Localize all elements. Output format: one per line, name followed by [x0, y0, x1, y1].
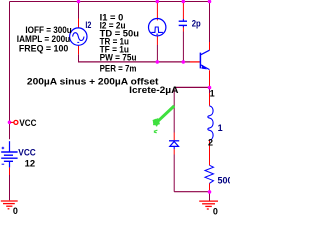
junction dot mid pulse: [156, 60, 160, 64]
transistor collector diagonal: [201, 50, 210, 55]
VCC port circle: [14, 120, 18, 124]
svg-text:VCC: VCC: [19, 118, 36, 128]
svg-text:1: 1: [218, 123, 223, 133]
wire right vertical to collector: [209, 2, 211, 43]
battery plate short: [4, 154, 13, 156]
wire node1 horizontal: [174, 86, 209, 88]
battery plate short bottom: [4, 160, 13, 162]
pin diode bottom: [173, 149, 175, 155]
battery V1 top stub: [9, 141, 11, 152]
transistor emitter arrowhead: [201, 65, 207, 70]
VCC port stub: [11, 121, 14, 123]
wire left vertical VCC rail: [9, 2, 11, 140]
junction dot VCC port: [8, 121, 12, 125]
pin inductor bottom / resistor top: [209, 140, 211, 165]
junction dot top right corner: [208, 0, 212, 3]
battery plate long top: [1, 151, 17, 153]
pin inductor top: [209, 93, 211, 106]
diode D cathode bar: [169, 140, 179, 142]
wire mid horizontal base net: [78, 61, 190, 63]
wire capacitor bottom: [182, 32, 184, 63]
svg-text:12: 12: [25, 159, 35, 169]
battery bottom stub: [9, 161, 11, 167]
pin resistor bottom: [209, 183, 211, 191]
minus dash inside pulse source: [156, 33, 158, 35]
svg-text:2: 2: [208, 137, 213, 147]
battery plus mark: [2, 147, 5, 150]
inductor L coil: [208, 106, 213, 140]
pin sine top: [78, 19, 80, 28]
svg-text:PER = 7m: PER = 7m: [100, 64, 137, 74]
svg-text:Icrete-2µA: Icrete-2µA: [129, 85, 179, 95]
svg-text:0: 0: [13, 206, 18, 215]
resistor R zigzag: [205, 165, 214, 183]
wire left branch vertical to diode: [173, 87, 175, 132]
pulse current source circle: [149, 19, 166, 36]
pin transistor base: [190, 61, 200, 63]
junction dot bottom right: [208, 190, 212, 194]
transistor Q1 bar: [199, 53, 201, 69]
pin transistor emitter: [209, 70, 211, 86]
svg-text:0: 0: [213, 207, 218, 215]
wire bottom horizontal: [174, 191, 209, 193]
capacitor C plates: [179, 20, 187, 22]
diode triangle: [170, 142, 179, 147]
svg-text:VCC: VCC: [18, 148, 36, 158]
pin capacitor top: [182, 3, 184, 20]
ground 0 left bars: [1, 201, 18, 209]
battery plate long: [1, 157, 17, 159]
minus dash inside I2: [77, 41, 79, 43]
wire battery lower to ground1: [9, 175, 11, 200]
sine wave inside I2: [73, 33, 84, 41]
battery minus mark: [2, 163, 5, 165]
pin diode top: [173, 133, 175, 141]
junction dot top capacitor: [182, 0, 186, 3]
wire top rail: [10, 1, 210, 3]
svg-text:500: 500: [218, 175, 231, 185]
pulse waveform inside: [151, 27, 163, 32]
current source I2 sine circle: [70, 28, 87, 45]
wire sine source top stub: [78, 2, 80, 19]
wire below node1 dot: [209, 89, 211, 93]
pin battery bottom: [9, 167, 11, 175]
wire ground2 stub: [209, 193, 211, 201]
diode bottom stub: [173, 146, 175, 149]
svg-text:2p: 2p: [192, 19, 201, 29]
svg-text:PW = 75u: PW = 75u: [100, 53, 137, 63]
pin capacitor bottom: [182, 27, 184, 32]
wire diode bottom vertical: [173, 155, 175, 192]
junction dot top pulse: [156, 0, 160, 3]
current probe blob: [153, 119, 160, 126]
junction dot mid capacitor: [182, 60, 186, 64]
junction dot top sine: [77, 0, 81, 3]
pin pulse top: [156, 3, 158, 21]
pin sine bottom: [78, 46, 80, 55]
wire sine source bottom vertical: [78, 54, 80, 62]
junction dot node 1: [208, 86, 212, 90]
wire pulse source bottom: [156, 45, 158, 62]
svg-text:I2: I2: [85, 20, 91, 30]
transistor emitter diagonal: [201, 65, 210, 70]
svg-text:1: 1: [210, 88, 215, 98]
ground 0 right bars: [199, 201, 218, 209]
current probe tail marks: [154, 130, 158, 133]
current probe green arrow: [158, 106, 174, 121]
pin pulse bottom: [156, 36, 158, 45]
capacitor ticks: [182, 19, 184, 21]
svg-text:FREQ = 100: FREQ = 100: [19, 43, 68, 53]
pin transistor collector: [209, 42, 211, 50]
